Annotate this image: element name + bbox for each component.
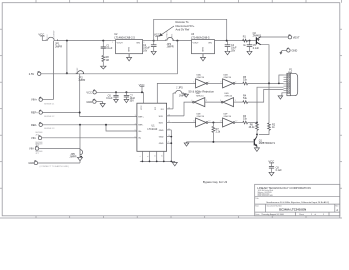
svg-text:FO: FO bbox=[155, 107, 157, 110]
ground Q2 emitter bbox=[254, 146, 259, 151]
svg-text:SDO: SDO bbox=[159, 122, 164, 124]
svg-text:VOUT: VOUT bbox=[117, 43, 124, 45]
svg-text:VIN-: VIN- bbox=[31, 136, 36, 140]
svg-text:JMPR: JMPR bbox=[55, 44, 62, 48]
svg-text:VIN+: VIN+ bbox=[31, 98, 37, 102]
ground base row left end bbox=[184, 142, 189, 146]
svg-text:9: 9 bbox=[235, 100, 236, 102]
ground C1/R8 bbox=[101, 66, 106, 69]
capacitor C6 bbox=[106, 92, 118, 102]
node junction bbox=[79, 112, 81, 114]
wire bbox=[235, 82, 243, 84]
capacitor C4 bbox=[225, 41, 237, 55]
svg-text:REF-: REF- bbox=[138, 125, 143, 127]
transistor Q1 bbox=[253, 32, 262, 45]
svg-text:Sheet: Sheet bbox=[299, 213, 304, 216]
wire REF+ bbox=[42, 112, 79, 114]
terminal VEXT bbox=[288, 35, 300, 40]
svg-text:0.1uF: 0.1uF bbox=[253, 47, 260, 50]
resistor R6 bbox=[249, 123, 259, 135]
terminal VIN+ bbox=[31, 97, 55, 105]
svg-text:GND: GND bbox=[159, 143, 164, 145]
frame ticks bbox=[0, 0, 342, 218]
node junction bbox=[66, 72, 68, 74]
DB9 pin stubs bbox=[284, 75, 287, 93]
svg-text:MMBT3904LT1: MMBT3904LT1 bbox=[259, 142, 276, 145]
svg-text:2.2k: 2.2k bbox=[216, 131, 221, 134]
svg-text:GND: GND bbox=[86, 100, 92, 104]
svg-text:74HC14: 74HC14 bbox=[223, 77, 231, 79]
svg-text:11: 11 bbox=[193, 121, 195, 123]
inverter U4B bbox=[220, 74, 236, 88]
svg-text:Size: Size bbox=[255, 206, 258, 208]
wire jumper JP1 down to VIN+ bbox=[52, 41, 54, 100]
wire row1 to DB9 bbox=[248, 82, 284, 84]
wire collector to VEXT bbox=[261, 36, 288, 38]
capacitor C7 bbox=[124, 92, 136, 102]
inverter U4C bbox=[191, 93, 207, 107]
wire SCK riser bbox=[184, 102, 192, 116]
chip bottom pin stubs bbox=[140, 151, 164, 161]
wire SDO row3 bbox=[171, 122, 195, 124]
svg-text:LTC2410: LTC2410 bbox=[148, 128, 158, 131]
wire chip FO pin to row1 bbox=[157, 83, 195, 103]
resistor R4 bbox=[243, 95, 248, 104]
ground below U3 bbox=[201, 54, 206, 61]
svg-text:VCC: VCC bbox=[47, 34, 49, 39]
wire bbox=[205, 101, 221, 103]
svg-text:Title: Title bbox=[255, 197, 258, 200]
svg-text:GND: GND bbox=[159, 130, 164, 132]
wire REF- down to VIN- sense bbox=[79, 125, 81, 149]
svg-text:A: A bbox=[336, 208, 338, 212]
svg-text:GND: GND bbox=[159, 137, 164, 139]
svg-text:1M: 1M bbox=[106, 59, 109, 62]
jumper JP5 bbox=[174, 86, 186, 98]
wire DB9 net down chain bbox=[257, 87, 284, 123]
svg-text:LINEAR TECHNOLOGY CORPORATION: LINEAR TECHNOLOGY CORPORATION bbox=[257, 186, 311, 190]
wire vcc-to-2.5v vertical bbox=[66, 41, 68, 74]
svg-text:Bypass Cap, For U3: Bypass Cap, For U3 bbox=[203, 180, 228, 184]
wire VIN- to chip IN- bbox=[42, 137, 137, 139]
svg-text:DC349A LTC2410GN: DC349A LTC2410GN bbox=[279, 208, 306, 212]
jumper JP2 bbox=[76, 67, 85, 82]
power symbol VCC (chip) bbox=[139, 83, 145, 93]
wire loop remote-disconnect bbox=[154, 19, 227, 40]
svg-text:8: 8 bbox=[147, 156, 149, 157]
svg-text:4: 4 bbox=[135, 123, 136, 125]
svg-text:74HC14: 74HC14 bbox=[196, 96, 204, 98]
resistor R5 bbox=[243, 76, 248, 85]
terminal VIN- sense bbox=[29, 143, 43, 155]
wire gnd chain right pins bbox=[170, 130, 172, 162]
capacitor C1 bbox=[101, 41, 113, 56]
terminal VIN- bbox=[31, 132, 43, 146]
inverter U4A bbox=[193, 73, 209, 88]
svg-text:SENSE J1: SENSE J1 bbox=[44, 103, 55, 105]
svg-text:Rev: Rev bbox=[335, 206, 338, 208]
inverter U4D bbox=[220, 93, 236, 107]
node junction C5 bbox=[249, 40, 251, 42]
inverter U4F bbox=[220, 114, 238, 128]
wire DB9 gnd pin bbox=[280, 93, 283, 96]
node junction cap C7 bbox=[125, 91, 127, 93]
svg-text:13: 13 bbox=[220, 121, 222, 123]
svg-text:(CONNECT TO EARTH GND): (CONNECT TO EARTH GND) bbox=[40, 165, 70, 168]
svg-text:50 & 60Hz Rejection: 50 & 60Hz Rejection bbox=[189, 89, 215, 93]
wire VIN+ to JP1 vertical bbox=[42, 99, 53, 101]
svg-text:Date:: Date: bbox=[255, 213, 260, 216]
node junction bbox=[256, 122, 258, 124]
node junction bbox=[278, 83, 280, 85]
terminal GND (above chip) bbox=[86, 99, 105, 107]
IC U1 LTC2410 bbox=[135, 103, 170, 151]
wire GND to jp6 ground bbox=[38, 162, 80, 164]
svg-text:74HC14: 74HC14 bbox=[223, 116, 231, 118]
svg-text:REF: REF bbox=[77, 67, 79, 72]
svg-text:6: 6 bbox=[135, 136, 136, 138]
resistor R8 bbox=[102, 56, 109, 67]
svg-text:VOUT: VOUT bbox=[193, 43, 200, 45]
svg-text:16: 16 bbox=[162, 155, 164, 157]
svg-text:VCC: VCC bbox=[141, 105, 143, 110]
svg-text:Simultaneous 50 & 60Hz Rejecti: Simultaneous 50 & 60Hz Rejection, Differ… bbox=[266, 201, 329, 204]
ground below U2 bbox=[127, 54, 132, 61]
svg-text:REF-: REF- bbox=[31, 123, 37, 127]
title block bbox=[255, 184, 340, 216]
terminal VCC (above chip) bbox=[86, 90, 96, 95]
svg-text:74HC14: 74HC14 bbox=[196, 77, 204, 79]
svg-text:GND: GND bbox=[201, 47, 203, 52]
svg-text:REF+: REF+ bbox=[138, 116, 144, 118]
node junction bbox=[105, 124, 107, 126]
wire bbox=[173, 40, 192, 42]
regulator U2 bbox=[111, 33, 154, 53]
svg-text:JMPR: JMPR bbox=[69, 155, 76, 159]
svg-text:74HC14: 74HC14 bbox=[196, 116, 204, 118]
jumper JP1 bbox=[46, 29, 62, 48]
ground below JP6 bbox=[78, 155, 83, 161]
svg-text:LT1460ACN8-5: LT1460ACN8-5 bbox=[191, 36, 210, 40]
svg-text:FO: FO bbox=[177, 86, 179, 89]
node junction vcc chip bbox=[141, 91, 143, 93]
node junction bbox=[176, 40, 178, 42]
wire gnd bus below chip bbox=[140, 160, 175, 162]
svg-text:IN-: IN- bbox=[138, 138, 141, 140]
power symbol VCC (mid) bbox=[154, 33, 160, 41]
svg-text:6: 6 bbox=[191, 100, 192, 102]
svg-text:SENSE J3: SENSE J3 bbox=[44, 128, 55, 130]
svg-text:SCK: SCK bbox=[159, 116, 164, 118]
terminal GND (top right) bbox=[279, 48, 297, 55]
wire row3 to R6 chain bbox=[248, 122, 257, 124]
svg-text:REF+: REF+ bbox=[31, 111, 38, 115]
svg-text:Thursday, August 24, 2000: Thursday, August 24, 2000 bbox=[261, 213, 283, 216]
resistor R2 bbox=[259, 83, 276, 134]
svg-text:FO: FO bbox=[161, 109, 164, 111]
svg-text:Remote To: Remote To bbox=[176, 20, 189, 24]
resistor R1 bbox=[243, 36, 248, 47]
regulator U3 bbox=[191, 33, 256, 53]
chip right pin stubs bbox=[167, 109, 184, 143]
node junction R7 bbox=[212, 122, 214, 124]
svg-text:15: 15 bbox=[155, 155, 157, 157]
jumper JP6 bbox=[69, 149, 82, 159]
terminal 2.5V bbox=[29, 71, 41, 76]
terminal GND (left) bbox=[28, 160, 69, 168]
node junction row1/Q1 emitter bbox=[268, 82, 270, 84]
svg-text:3: 3 bbox=[135, 115, 136, 117]
svg-text:GND: GND bbox=[292, 49, 298, 53]
terminal REF- bbox=[31, 122, 55, 130]
svg-text:0.1uF: 0.1uF bbox=[106, 97, 113, 100]
svg-text:8: 8 bbox=[220, 100, 221, 102]
connector P1 DB9 bbox=[287, 68, 298, 95]
svg-text:46.4k: 46.4k bbox=[249, 126, 256, 129]
svg-text:VCC: VCC bbox=[86, 91, 92, 95]
svg-text:Disconnect 5V+: Disconnect 5V+ bbox=[176, 24, 195, 28]
wire bbox=[208, 82, 223, 84]
ground DB9 bbox=[278, 96, 283, 99]
svg-text:GND: GND bbox=[28, 161, 34, 165]
wire bbox=[208, 122, 223, 124]
transistor Q2 bbox=[254, 135, 275, 147]
svg-text:SENSE J2: SENSE J2 bbox=[44, 116, 55, 118]
wire rail-left bbox=[42, 40, 46, 42]
wire row2 to DB9 bbox=[248, 89, 284, 102]
wire sense row bbox=[39, 148, 80, 150]
node junction bbox=[66, 40, 68, 42]
node junction C1 bbox=[102, 40, 104, 42]
power symbol VCC (bypass) bbox=[268, 159, 274, 166]
svg-text:JP5: JP5 bbox=[178, 86, 183, 90]
svg-text:2.5VREF: 2.5VREF bbox=[53, 29, 55, 38]
node junction C2 bbox=[153, 40, 155, 42]
wire emitter down to row1 bbox=[261, 45, 269, 84]
svg-text:0.1uF: 0.1uF bbox=[106, 47, 113, 50]
svg-text:0.1uF: 0.1uF bbox=[276, 169, 283, 172]
svg-text:JMPR: JMPR bbox=[167, 45, 174, 49]
svg-text:VIN-: VIN- bbox=[29, 147, 34, 151]
node junction bbox=[79, 124, 81, 126]
wire bbox=[235, 122, 243, 124]
svg-text:1: 1 bbox=[311, 214, 312, 216]
wire bbox=[234, 101, 243, 103]
wire vcc rail to chip bbox=[96, 91, 143, 93]
svg-text:35V: 35V bbox=[231, 49, 236, 52]
capacitor C5 bbox=[247, 41, 260, 55]
wire IN+ riser bbox=[106, 125, 137, 131]
ground JP5 bbox=[184, 94, 188, 98]
svg-text:VIN: VIN bbox=[208, 43, 212, 45]
node junction loop/C4 bbox=[226, 40, 228, 42]
svg-text:74HC14: 74HC14 bbox=[224, 96, 232, 98]
power symbol VCC (left) bbox=[38, 32, 44, 40]
note arrow bbox=[160, 20, 195, 36]
svg-text:1: 1 bbox=[140, 156, 142, 157]
terminal REF+ bbox=[31, 110, 55, 118]
wire REF- to chip bbox=[42, 124, 136, 126]
ground chip bus bbox=[172, 161, 177, 166]
svg-text:2.5V: 2.5V bbox=[29, 72, 35, 76]
svg-text:1: 1 bbox=[323, 214, 324, 216]
wire JP2 down to REF+ bbox=[80, 74, 137, 117]
capacitor C8 bypass bbox=[269, 167, 282, 176]
resistor R7 bbox=[212, 123, 221, 142]
jumper JP3 bbox=[166, 31, 174, 49]
svg-text:GND: GND bbox=[127, 47, 129, 52]
node junction collector bbox=[256, 134, 258, 136]
capacitor C2 bbox=[143, 41, 157, 55]
svg-text:5VREG: 5VREG bbox=[166, 31, 168, 38]
wire down from node to 2.5V row bbox=[41, 41, 177, 74]
svg-text:16V: 16V bbox=[143, 49, 148, 52]
node junction cap C6 bbox=[115, 91, 117, 93]
wire FO to JP5 bbox=[172, 94, 175, 109]
svg-text:JMPR: JMPR bbox=[78, 78, 85, 82]
node junction base/R7 bbox=[212, 141, 214, 143]
svg-text:35V: 35V bbox=[130, 100, 135, 103]
svg-text:3: 3 bbox=[220, 82, 221, 84]
svg-text:2N4403: 2N4403 bbox=[253, 34, 262, 37]
svg-text:1: 1 bbox=[193, 82, 194, 84]
wire bbox=[58, 40, 112, 42]
wire bbox=[154, 40, 166, 42]
svg-text:5: 5 bbox=[206, 100, 207, 102]
svg-text:LT1460ACN8-2.5: LT1460ACN8-2.5 bbox=[114, 36, 135, 40]
wire chip VCC pin bbox=[143, 92, 145, 103]
svg-text:And 5V Ref: And 5V Ref bbox=[176, 28, 190, 32]
wire DB9 pin1 tie bbox=[279, 75, 284, 83]
svg-text:(408) 434-0507 FAX: (408) 434-0507 FAX bbox=[258, 194, 274, 197]
svg-text:5: 5 bbox=[135, 130, 136, 132]
svg-text:VEXT: VEXT bbox=[293, 35, 300, 39]
inverter U4E bbox=[193, 114, 210, 128]
svg-text:VIN: VIN bbox=[136, 43, 140, 45]
resistor R3 bbox=[243, 115, 248, 124]
wire Q2 base row bbox=[187, 141, 255, 143]
